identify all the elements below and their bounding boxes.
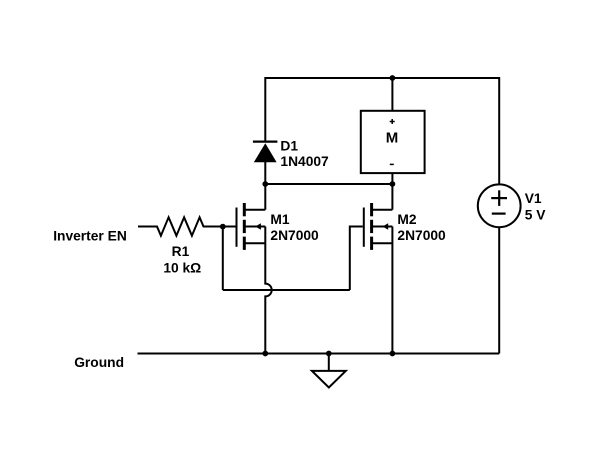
svg-text:R1: R1 xyxy=(172,244,190,259)
svg-text:2N7000: 2N7000 xyxy=(397,228,446,243)
node drain M1 junction dot xyxy=(262,181,268,187)
node M2 ground junction dot xyxy=(390,351,396,357)
node motor bottom junction dot xyxy=(390,181,396,187)
svg-text:V1: V1 xyxy=(525,191,542,206)
motor M xyxy=(361,111,425,173)
wire left branch top xyxy=(264,77,266,142)
svg-text:2N7000: 2N7000 xyxy=(270,228,319,243)
voltage source V1 xyxy=(478,184,521,227)
wire motor bottom lead xyxy=(391,173,393,184)
svg-text:5 V: 5 V xyxy=(525,208,547,223)
transistor M1 xyxy=(237,203,266,250)
node M1 ground junction dot xyxy=(262,351,268,357)
node ground symbol junction dot xyxy=(326,351,332,357)
wire M2 source to ground xyxy=(391,227,393,354)
svg-text:Inverter EN: Inverter EN xyxy=(53,228,127,243)
wire gate bus horizontal xyxy=(223,289,350,291)
svg-text:1N4007: 1N4007 xyxy=(280,154,329,169)
node gate junction dot xyxy=(220,224,226,230)
wire gate riser to M2 xyxy=(350,227,363,291)
node motor top junction dot xyxy=(390,75,396,81)
wire ground rail xyxy=(138,353,500,355)
svg-text:M2: M2 xyxy=(397,212,416,227)
wire right rail upper xyxy=(498,77,500,185)
wire M2 drain to motor node xyxy=(391,184,393,210)
wire drain node to motor node xyxy=(265,183,392,185)
svg-text:D1: D1 xyxy=(280,138,298,153)
wire gate node down xyxy=(222,227,224,291)
svg-text:M1: M1 xyxy=(270,212,289,227)
svg-text:10 kΩ: 10 kΩ xyxy=(163,260,201,275)
wire M1 source to ground with hop over gate bus xyxy=(265,227,271,354)
wire motor top lead xyxy=(391,78,393,111)
svg-text:M: M xyxy=(386,129,399,146)
svg-text:Ground: Ground xyxy=(74,355,124,370)
wire top rail xyxy=(265,77,499,79)
diode D1 xyxy=(253,142,278,163)
resistor R1 xyxy=(138,217,236,235)
wire diode to M1 drain xyxy=(264,162,266,210)
ground symbol xyxy=(312,354,346,388)
transistor M2 xyxy=(364,203,393,250)
wire right rail lower xyxy=(498,227,500,353)
